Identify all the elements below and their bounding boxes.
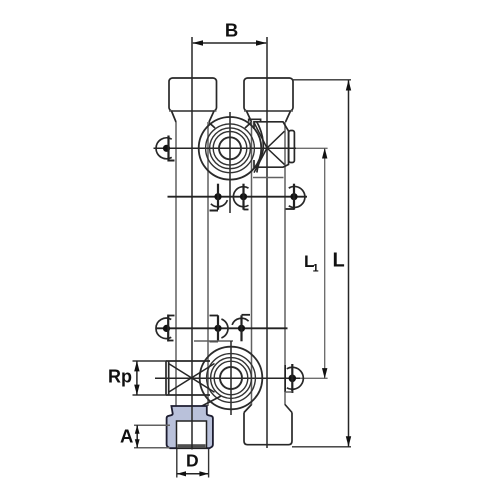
bottom bracket rail xyxy=(156,327,288,329)
top valve body outline xyxy=(254,122,289,167)
valve body slant above nut xyxy=(200,396,221,407)
top valve X legs xyxy=(254,123,267,149)
bottom valve X legs xyxy=(169,364,215,393)
top valve body circles xyxy=(199,117,262,180)
left cap xyxy=(169,78,217,111)
right pipe bottom outlet flare xyxy=(244,405,252,413)
pipe end inside nut xyxy=(178,444,206,448)
joint line below valve xyxy=(253,177,284,179)
right pipe xyxy=(251,122,253,405)
clamp F (bottom row) xyxy=(232,318,249,325)
clamp A (top row) xyxy=(211,200,228,207)
clamp E (bottom row) xyxy=(221,319,228,338)
dimension L1 xyxy=(324,148,326,378)
left pipe xyxy=(175,122,177,406)
right pipe bottom outlet body xyxy=(244,413,292,445)
svg-text:L: L xyxy=(333,250,345,272)
bottom valve horizontal centerline xyxy=(155,377,300,379)
top-left pipe clamp xyxy=(156,138,172,159)
svg-text:D: D xyxy=(186,451,199,471)
joint line above bottom valve xyxy=(194,340,233,342)
compression nut (shaded) xyxy=(167,406,213,448)
nut bore xyxy=(177,421,207,448)
right cap xyxy=(244,78,293,111)
bottom valve body circles xyxy=(200,347,263,410)
dimension D xyxy=(176,449,178,478)
bottom-right pipe clamp xyxy=(287,367,304,389)
svg-text:1: 1 xyxy=(313,263,319,275)
step rectangle top of valve xyxy=(249,119,261,122)
centerline left pipe (B extension) xyxy=(191,37,193,449)
top bracket rail xyxy=(168,196,308,198)
bottom valve body outline (Rp port) xyxy=(166,360,210,362)
centerline through nut xyxy=(191,406,193,450)
dimension L xyxy=(292,79,351,81)
svg-text:A: A xyxy=(120,425,133,446)
svg-text:Rp: Rp xyxy=(108,366,132,386)
svg-text:B: B xyxy=(225,19,238,40)
right side port cap xyxy=(289,131,295,163)
top valve vertical centerline xyxy=(229,112,231,213)
clamp C (top row right) xyxy=(289,186,305,207)
bottom valve vertical centerline xyxy=(230,341,232,415)
clamp D (bottom row left) xyxy=(156,318,171,338)
clamp B (top row) xyxy=(233,187,248,207)
centerline right pipe (B extension) xyxy=(266,37,268,448)
top valve body S-curve xyxy=(257,122,264,173)
top valve horizontal centerline xyxy=(154,147,297,149)
valve shoulder lines xyxy=(209,123,215,129)
